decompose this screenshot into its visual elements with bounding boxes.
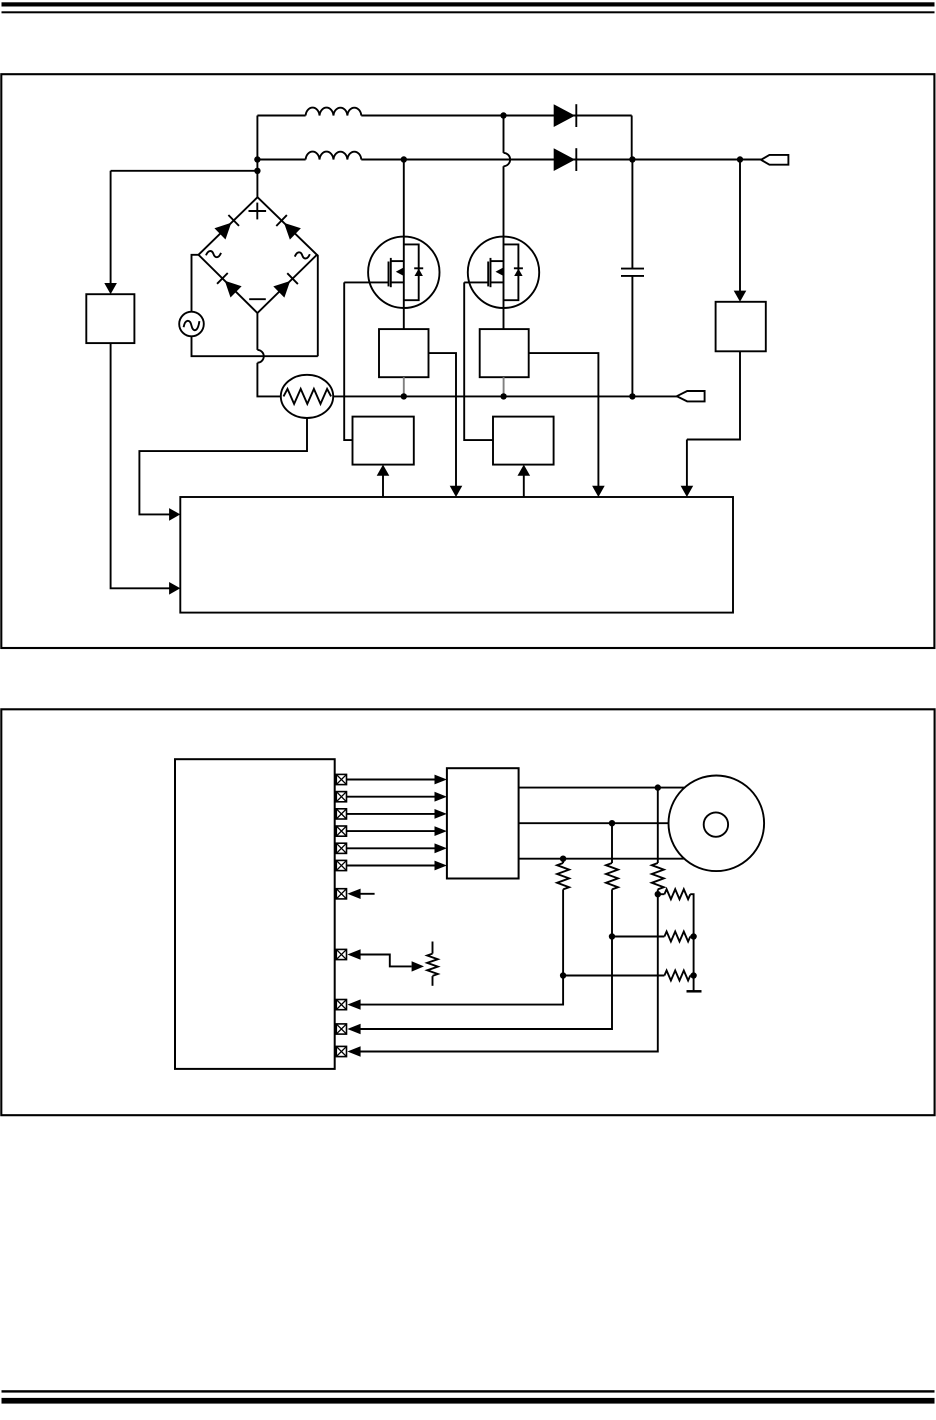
arrow into VS1 xyxy=(734,291,747,302)
MCU pin P8 xyxy=(336,949,346,959)
junction C1 bottom xyxy=(629,393,635,399)
arrow sense W into pin xyxy=(347,999,360,1009)
wire top rail left segment xyxy=(257,115,305,117)
wire Q1 gate lead xyxy=(344,281,388,283)
wire controller to GD1 stem xyxy=(382,475,384,497)
wire RT1 feedback xyxy=(139,418,307,514)
wire motor phase U xyxy=(519,787,685,789)
arrow CS1 into controller xyxy=(450,486,463,497)
header thick rule xyxy=(2,2,935,6)
junction U2 tap xyxy=(254,168,260,174)
wire Q1 gate drop xyxy=(344,282,352,440)
wire second rail left segment xyxy=(257,159,305,161)
MCU pin P3 xyxy=(336,809,346,819)
junction second rail left xyxy=(254,156,260,162)
MOSFET Q1 xyxy=(368,160,439,330)
figure 1 border frame xyxy=(1,74,934,648)
junction Q1 drain xyxy=(401,156,407,162)
arrow PWM1 into driver xyxy=(435,775,447,785)
junction Q2 drain top xyxy=(500,112,506,118)
arrow into GD1 xyxy=(377,465,390,476)
MCU pin P10 xyxy=(336,1024,346,1034)
wire CS2 output xyxy=(529,353,599,486)
junction Q2 source rail xyxy=(500,393,506,399)
block CS1 xyxy=(379,329,429,377)
wire VS1 output xyxy=(687,351,740,486)
junction R5 right xyxy=(690,933,696,939)
figure 2 border frame xyxy=(1,709,934,1115)
arrow sense U into pin xyxy=(347,1046,360,1056)
arrow CS2 into controller xyxy=(592,486,605,497)
connector flag OUT- xyxy=(677,391,705,401)
wire AC return bottom xyxy=(192,336,318,356)
arrow PWM5 into driver xyxy=(435,843,447,853)
arrow into speed pin xyxy=(347,949,360,959)
wire sense U lower xyxy=(360,889,658,1051)
footer thick rule xyxy=(2,1398,935,1404)
resistor R2 xyxy=(606,863,618,889)
wire R6 right stub xyxy=(690,975,693,977)
motor M xyxy=(669,776,765,872)
wire hop over second rail xyxy=(504,153,511,166)
controller block U1 xyxy=(180,497,733,613)
wire U2 input stem xyxy=(110,171,112,284)
junction phase V tap xyxy=(609,820,615,826)
ground xyxy=(687,990,702,993)
wire sense V upper xyxy=(611,823,613,863)
arrow PWM4 into driver xyxy=(435,826,447,836)
junction Q1 source rail xyxy=(401,393,407,399)
junction R6 right xyxy=(690,972,696,978)
footer thin rule xyxy=(2,1390,935,1392)
inductor L1 xyxy=(306,108,362,116)
junction divider top xyxy=(655,891,661,897)
thermistor RT1 xyxy=(281,375,333,418)
resistor R1 xyxy=(652,863,664,889)
wire PWM3 to driver xyxy=(347,813,436,815)
wire left drop to bridge xyxy=(256,116,258,198)
arrow into GD2 xyxy=(518,465,531,476)
wire CS1 output xyxy=(429,353,457,486)
gate driver block U4 xyxy=(447,768,519,878)
wire PWM5 to driver xyxy=(347,847,436,849)
resistor R5 xyxy=(664,932,690,942)
MCU pin P1 xyxy=(336,774,346,784)
wire CS1 to rail stub xyxy=(403,377,405,396)
resistor R4 xyxy=(664,889,690,899)
junction C1 top xyxy=(629,156,635,162)
wire divider mid lead xyxy=(612,936,664,938)
junction R6 left xyxy=(560,972,566,978)
wire PWM1 to driver xyxy=(347,779,436,781)
arrow into U2 xyxy=(104,283,117,294)
block GD1 xyxy=(353,417,414,465)
wire PWM2 to driver xyxy=(347,796,436,798)
diode D2 xyxy=(554,148,575,171)
wire bridge left vertex lead xyxy=(192,255,199,312)
capacitor C1 xyxy=(631,160,633,269)
wire PWM6 to driver xyxy=(347,865,436,867)
block CS2 xyxy=(480,329,529,377)
wire sense U upper xyxy=(657,788,659,863)
MCU pin P6 xyxy=(336,860,346,870)
junction phase U tap xyxy=(655,784,661,790)
wire top rail right segment xyxy=(361,115,631,117)
connector flag OUT+ xyxy=(761,155,788,165)
resistor R6 xyxy=(664,971,690,981)
arrow into potentiometer xyxy=(412,961,424,971)
MCU pin P7 xyxy=(336,889,346,899)
MCU pin P5 xyxy=(336,843,346,853)
junction R5 left xyxy=(609,933,615,939)
MCU pin P11 xyxy=(336,1046,346,1056)
wire motor phase W xyxy=(519,858,685,860)
wire CS2 to rail stub xyxy=(503,377,505,396)
wire sense V lower xyxy=(360,889,613,1029)
wire second rail right segment xyxy=(361,159,761,161)
diode D1 xyxy=(554,104,575,127)
junction phase W tap xyxy=(560,856,566,862)
wire branch to block U2 xyxy=(111,170,258,172)
arrow VS1 into controller xyxy=(681,486,694,497)
wire hop over AC return xyxy=(257,350,263,363)
arrow U2 into controller xyxy=(169,582,180,595)
arrow RT1 into controller xyxy=(169,508,180,521)
arrow into fault pin xyxy=(347,889,360,899)
wire fault line xyxy=(360,893,375,895)
bridge rectifier BR1 xyxy=(199,197,317,313)
wire Q2 gate lead xyxy=(464,281,488,283)
MCU pin P2 xyxy=(336,792,346,802)
wire sense W upper xyxy=(562,859,564,863)
junction OUT+ tap xyxy=(737,156,743,162)
MCU pin P9 xyxy=(336,1000,346,1010)
wire OUT+ branch stem xyxy=(739,160,741,292)
wire motor phase V xyxy=(519,822,669,824)
AC source V1 xyxy=(179,312,204,337)
header thin rule xyxy=(2,11,935,13)
MCU pin P4 xyxy=(336,826,346,836)
wire sense W lower xyxy=(360,889,564,1004)
block U2 xyxy=(86,294,134,343)
wire controller to GD2 stem xyxy=(523,475,525,497)
resistor R3 xyxy=(557,863,569,889)
wire sense rail xyxy=(333,395,677,397)
wire R5 right stub xyxy=(690,936,693,938)
potentiometer VR1 xyxy=(432,942,434,954)
block VS1 xyxy=(716,302,766,352)
block GD2 xyxy=(493,417,554,465)
inductor L2 xyxy=(306,152,362,160)
wire divider bottom lead xyxy=(563,975,664,977)
MOSFET Q2 xyxy=(468,166,539,329)
arrow sense V into pin xyxy=(347,1024,360,1034)
wire Q2 drain drop xyxy=(503,116,505,153)
wire Q2 gate drop xyxy=(464,282,493,440)
wire divider right rail xyxy=(690,894,693,991)
wire divider top lead xyxy=(658,893,665,895)
wire bridge right vertex drop xyxy=(316,255,319,356)
wire pot to pin xyxy=(360,955,412,967)
wire U2 feedback xyxy=(111,343,170,588)
wire PWM4 to driver xyxy=(347,830,436,832)
wire bridge bottom drop xyxy=(256,313,258,350)
wire bridge bottom drop lower xyxy=(257,363,280,397)
wire diode D1 cathode drop xyxy=(631,116,633,160)
arrow PWM3 into driver xyxy=(435,809,447,819)
MCU block U3 xyxy=(175,759,335,1069)
arrow PWM6 into driver xyxy=(435,861,447,871)
arrow PWM2 into driver xyxy=(435,792,447,802)
